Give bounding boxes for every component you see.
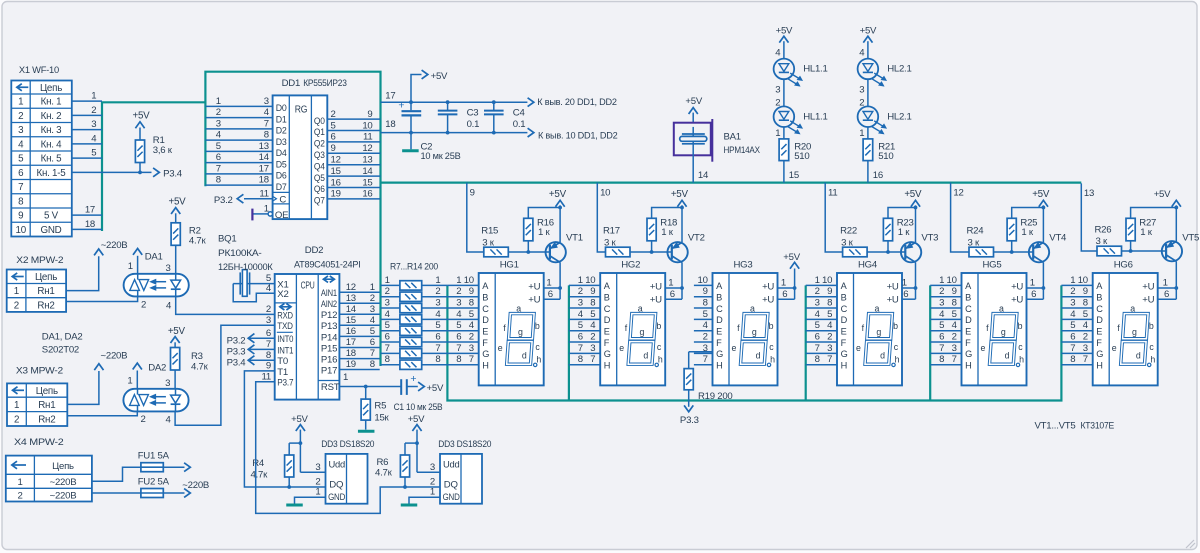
svg-text:FU2 5A: FU2 5A — [138, 477, 170, 488]
svg-text:D3: D3 — [276, 137, 287, 148]
svg-text:3: 3 — [166, 263, 171, 274]
svg-text:15: 15 — [346, 315, 356, 326]
svg-text:F: F — [841, 338, 847, 348]
svg-text:8: 8 — [456, 354, 461, 365]
svg-text:10: 10 — [698, 275, 708, 286]
svg-text:G: G — [1096, 349, 1103, 359]
svg-text:VT2: VT2 — [688, 232, 705, 243]
svg-text:+U: +U — [1142, 282, 1154, 293]
svg-text:7: 7 — [939, 343, 944, 354]
svg-text:Rн1: Rн1 — [38, 400, 55, 411]
svg-text:b: b — [656, 321, 661, 331]
svg-text:C3: C3 — [467, 108, 479, 119]
svg-text:2: 2 — [815, 286, 820, 297]
svg-text:a: a — [875, 304, 880, 314]
svg-text:E: E — [841, 326, 847, 336]
svg-text:3: 3 — [578, 297, 583, 308]
svg-text:+: + — [398, 100, 404, 112]
svg-text:7: 7 — [18, 182, 23, 193]
svg-text:2: 2 — [456, 286, 461, 297]
svg-text:~220В: ~220В — [101, 351, 128, 362]
svg-text:5: 5 — [827, 309, 832, 320]
svg-text:HPM14AX: HPM14AX — [724, 145, 761, 156]
svg-text:P3.2: P3.2 — [227, 336, 246, 347]
svg-text:OE: OE — [275, 210, 288, 221]
svg-text:E: E — [604, 326, 610, 336]
svg-text:d: d — [880, 351, 885, 361]
svg-text:a: a — [638, 304, 643, 314]
svg-text:7: 7 — [456, 343, 461, 354]
svg-text:9: 9 — [367, 109, 372, 120]
svg-text:+5V: +5V — [169, 197, 187, 208]
svg-text:2: 2 — [91, 105, 96, 116]
svg-text:C: C — [716, 304, 723, 314]
svg-text:F: F — [1096, 338, 1102, 348]
svg-text:1: 1 — [127, 376, 132, 387]
svg-text:+5V: +5V — [860, 25, 877, 36]
svg-text:3: 3 — [815, 297, 820, 308]
svg-text:g: g — [876, 327, 881, 337]
svg-text:7: 7 — [1083, 354, 1088, 365]
svg-text:+U: +U — [650, 295, 662, 306]
svg-text:P3.3: P3.3 — [227, 347, 246, 358]
svg-text:3: 3 — [469, 343, 474, 354]
svg-text:P3.4: P3.4 — [227, 358, 247, 369]
svg-text:H: H — [965, 360, 971, 370]
svg-text:3: 3 — [590, 343, 595, 354]
svg-text:+5V: +5V — [133, 110, 151, 121]
svg-text:10: 10 — [16, 225, 27, 236]
svg-text:14: 14 — [362, 166, 373, 177]
svg-text:11: 11 — [262, 371, 271, 382]
svg-text:C4: C4 — [513, 108, 526, 119]
svg-text:g: g — [518, 327, 523, 337]
svg-text:Кн. 1-5: Кн. 1-5 — [37, 168, 67, 179]
svg-text:13: 13 — [346, 293, 356, 304]
svg-text:7: 7 — [264, 118, 269, 129]
svg-text:2: 2 — [435, 286, 440, 297]
svg-text:5: 5 — [815, 320, 820, 331]
svg-text:5: 5 — [1070, 320, 1075, 331]
svg-text:2: 2 — [14, 414, 19, 425]
svg-text:BQ1: BQ1 — [218, 234, 236, 245]
svg-text:BA1: BA1 — [724, 132, 741, 143]
svg-text:P3.7: P3.7 — [277, 378, 293, 389]
svg-text:Q6: Q6 — [314, 184, 325, 195]
svg-text:R19 200: R19 200 — [698, 391, 733, 402]
svg-text:G: G — [482, 349, 489, 359]
svg-text:1: 1 — [1163, 278, 1168, 289]
svg-text:HG4: HG4 — [858, 259, 878, 270]
svg-text:5: 5 — [91, 148, 96, 159]
svg-text:+5V: +5V — [1154, 189, 1171, 200]
svg-text:7: 7 — [216, 163, 221, 174]
svg-text:P13: P13 — [321, 321, 337, 332]
svg-text:HL1.1: HL1.1 — [803, 64, 827, 75]
svg-text:B: B — [965, 292, 971, 302]
svg-text:1: 1 — [859, 128, 864, 139]
svg-text:HG2: HG2 — [621, 259, 640, 270]
svg-text:HG5: HG5 — [983, 259, 1002, 270]
svg-text:9: 9 — [703, 286, 708, 297]
svg-text:a: a — [516, 304, 521, 314]
svg-text:c: c — [657, 342, 662, 352]
svg-text:7: 7 — [703, 354, 708, 365]
svg-text:+: + — [410, 373, 416, 385]
svg-text:+U: +U — [528, 295, 540, 306]
svg-text:+5V: +5V — [776, 25, 793, 36]
svg-text:RST: RST — [321, 382, 340, 393]
svg-text:1: 1 — [14, 400, 19, 411]
svg-text:R1: R1 — [153, 135, 165, 146]
svg-text:1: 1 — [781, 278, 786, 289]
svg-text:C: C — [482, 304, 489, 314]
svg-text:c: c — [1018, 342, 1023, 352]
svg-text:P3.4: P3.4 — [163, 168, 183, 179]
svg-text:H: H — [1096, 360, 1102, 370]
svg-text:3: 3 — [216, 118, 221, 129]
svg-text:Кн. 4: Кн. 4 — [41, 139, 63, 150]
svg-text:R24: R24 — [967, 225, 985, 236]
svg-text:3: 3 — [1083, 343, 1088, 354]
svg-text:D5: D5 — [276, 159, 287, 170]
svg-text:2: 2 — [266, 304, 271, 315]
svg-text:3: 3 — [827, 343, 832, 354]
svg-text:1: 1 — [91, 91, 96, 102]
svg-text:4: 4 — [264, 107, 270, 118]
svg-text:Кн. 2: Кн. 2 — [41, 111, 62, 122]
svg-text:DQ: DQ — [329, 480, 343, 491]
svg-text:1: 1 — [435, 275, 440, 286]
svg-text:g: g — [640, 327, 645, 337]
svg-text:5: 5 — [939, 320, 944, 331]
svg-text:Q3: Q3 — [314, 150, 325, 161]
svg-text:D4: D4 — [276, 148, 288, 159]
svg-text:5 V: 5 V — [44, 211, 59, 222]
svg-text:15: 15 — [362, 177, 372, 188]
svg-text:5: 5 — [18, 154, 24, 165]
svg-text:16: 16 — [362, 189, 372, 200]
svg-text:15: 15 — [789, 170, 799, 181]
svg-text:T1: T1 — [277, 367, 288, 378]
svg-text:8: 8 — [216, 175, 221, 186]
svg-text:FU1 5A: FU1 5A — [138, 450, 170, 461]
svg-text:b: b — [535, 321, 540, 331]
svg-text:Q7: Q7 — [314, 196, 325, 207]
svg-text:Кн. 1: Кн. 1 — [41, 97, 62, 108]
svg-text:B: B — [604, 292, 610, 302]
svg-text:INT0: INT0 — [277, 334, 293, 345]
svg-text:AIN2: AIN2 — [321, 299, 337, 310]
svg-text:7: 7 — [435, 343, 440, 354]
svg-text:6: 6 — [1070, 331, 1075, 342]
svg-text:Rн2: Rн2 — [38, 414, 55, 425]
svg-text:H: H — [841, 360, 847, 370]
svg-text:Кн. 5: Кн. 5 — [41, 154, 63, 165]
svg-text:10: 10 — [464, 275, 474, 286]
svg-text:VT3: VT3 — [921, 232, 938, 243]
svg-text:G: G — [604, 349, 611, 359]
svg-text:+5V: +5V — [408, 414, 425, 425]
svg-text:X3 MPW-2: X3 MPW-2 — [16, 365, 63, 376]
svg-text:Q5: Q5 — [314, 173, 325, 184]
svg-text:R15: R15 — [481, 225, 498, 236]
svg-text:P16: P16 — [321, 355, 337, 366]
svg-text:7: 7 — [370, 348, 375, 359]
svg-text:12: 12 — [953, 188, 963, 199]
svg-text:G: G — [965, 349, 972, 359]
svg-text:6: 6 — [670, 289, 675, 300]
svg-text:Кн. 3: Кн. 3 — [41, 125, 63, 136]
svg-text:8: 8 — [469, 297, 474, 308]
svg-text:+5V: +5V — [431, 71, 448, 82]
svg-text:Q1: Q1 — [314, 127, 325, 138]
svg-text:13: 13 — [1084, 188, 1094, 199]
svg-text:Цепь: Цепь — [35, 272, 57, 283]
svg-text:3: 3 — [385, 297, 390, 308]
svg-text:7: 7 — [385, 343, 390, 354]
svg-text:7: 7 — [815, 343, 820, 354]
svg-text:X1 WF-10: X1 WF-10 — [19, 65, 59, 76]
svg-text:~220В: ~220В — [50, 491, 77, 502]
svg-text:F: F — [716, 338, 722, 348]
svg-text:5: 5 — [952, 309, 957, 320]
svg-text:~220В: ~220В — [50, 477, 77, 488]
svg-text:b: b — [769, 321, 774, 331]
svg-text:e: e — [856, 343, 861, 353]
svg-text:F: F — [604, 338, 610, 348]
svg-text:S202T02: S202T02 — [42, 344, 79, 355]
svg-text:2: 2 — [1070, 286, 1075, 297]
svg-text:8: 8 — [435, 354, 440, 365]
svg-text:2: 2 — [469, 331, 474, 342]
svg-text:F: F — [965, 338, 971, 348]
svg-text:19: 19 — [331, 189, 341, 200]
svg-text:B: B — [482, 292, 488, 302]
svg-text:5: 5 — [456, 320, 461, 331]
svg-text:13: 13 — [259, 141, 269, 152]
svg-text:R3: R3 — [191, 351, 203, 362]
svg-text:+U: +U — [1011, 282, 1023, 293]
svg-text:510: 510 — [878, 151, 893, 162]
svg-text:R22: R22 — [840, 225, 857, 236]
svg-text:3: 3 — [266, 315, 271, 326]
svg-text:3: 3 — [165, 378, 170, 389]
svg-text:Udd: Udd — [443, 459, 460, 470]
svg-text:9: 9 — [470, 188, 475, 199]
svg-text:3: 3 — [775, 84, 780, 95]
svg-text:e: e — [1112, 343, 1117, 353]
svg-text:3: 3 — [91, 119, 96, 130]
svg-text:1: 1 — [315, 487, 320, 498]
svg-text:14: 14 — [259, 152, 270, 163]
svg-text:8: 8 — [264, 130, 269, 141]
svg-text:DA2: DA2 — [148, 363, 166, 374]
svg-text:C: C — [841, 304, 848, 314]
svg-text:18: 18 — [85, 219, 95, 230]
svg-text:D0: D0 — [276, 103, 287, 114]
svg-text:17: 17 — [385, 91, 395, 102]
svg-text:5: 5 — [590, 309, 595, 320]
svg-text:4.7к: 4.7к — [375, 468, 393, 479]
svg-text:2: 2 — [18, 111, 23, 122]
svg-text:P14: P14 — [321, 332, 338, 343]
svg-text:RG: RG — [295, 105, 308, 116]
svg-text:E: E — [482, 326, 488, 336]
svg-text:2: 2 — [827, 331, 832, 342]
svg-text:8: 8 — [370, 359, 375, 370]
svg-text:1 к: 1 к — [1021, 227, 1034, 238]
svg-text:18: 18 — [259, 175, 269, 186]
svg-text:R6: R6 — [377, 457, 389, 468]
svg-text:3: 3 — [18, 125, 24, 136]
svg-text:1: 1 — [1030, 278, 1035, 289]
svg-text:Q0: Q0 — [314, 116, 325, 127]
svg-text:6: 6 — [435, 331, 440, 342]
svg-text:Цепь: Цепь — [40, 83, 62, 94]
svg-text:7: 7 — [266, 339, 271, 350]
svg-text:T0: T0 — [277, 356, 288, 367]
svg-text:16: 16 — [346, 326, 356, 337]
svg-text:4: 4 — [775, 48, 781, 59]
svg-text:C: C — [279, 195, 286, 206]
svg-text:G: G — [716, 349, 723, 359]
svg-text:12БН-10000К: 12БН-10000К — [218, 262, 273, 273]
svg-text:3,6 к: 3,6 к — [153, 145, 173, 156]
svg-text:X4 MPW-2: X4 MPW-2 — [14, 437, 64, 448]
svg-text:b: b — [1149, 321, 1154, 331]
svg-text:3: 3 — [859, 84, 864, 95]
svg-text:GND: GND — [40, 225, 61, 236]
svg-text:a: a — [750, 304, 755, 314]
svg-text:c: c — [894, 342, 899, 352]
svg-text:2: 2 — [703, 331, 708, 342]
svg-text:7: 7 — [578, 343, 583, 354]
svg-text:10 мк 25В: 10 мк 25В — [421, 151, 461, 162]
svg-text:DD3 DS18S20: DD3 DS18S20 — [321, 439, 374, 450]
svg-text:R26: R26 — [1095, 224, 1112, 235]
svg-text:6: 6 — [815, 331, 820, 342]
svg-text:5: 5 — [370, 326, 375, 337]
svg-text:+U: +U — [528, 282, 540, 293]
svg-text:4.7к: 4.7к — [191, 361, 209, 372]
svg-text:HL1.1: HL1.1 — [803, 111, 827, 122]
svg-text:3: 3 — [939, 297, 944, 308]
svg-text:11: 11 — [363, 132, 372, 143]
svg-text:8: 8 — [1083, 297, 1088, 308]
svg-text:4: 4 — [91, 133, 97, 144]
svg-text:9: 9 — [827, 286, 832, 297]
svg-text:~220В: ~220В — [182, 480, 209, 491]
svg-text:C: C — [965, 304, 972, 314]
svg-text:h: h — [536, 355, 541, 365]
svg-text:HL2.1: HL2.1 — [887, 64, 911, 75]
svg-text:9: 9 — [590, 286, 595, 297]
svg-text:d: d — [1136, 351, 1141, 361]
svg-text:e: e — [619, 343, 624, 353]
svg-text:P3.3: P3.3 — [680, 415, 699, 426]
svg-text:1: 1 — [578, 275, 583, 286]
svg-text:К выв. 10 DD1, DD2: К выв. 10 DD1, DD2 — [538, 131, 618, 142]
svg-text:2: 2 — [952, 331, 957, 342]
svg-text:R5: R5 — [374, 400, 386, 411]
svg-text:AIN1: AIN1 — [321, 288, 337, 299]
svg-text:5: 5 — [469, 309, 474, 320]
svg-text:2: 2 — [590, 331, 595, 342]
svg-text:8: 8 — [385, 354, 390, 365]
svg-text:10: 10 — [822, 275, 832, 286]
svg-text:1 к: 1 к — [538, 227, 551, 238]
svg-text:+U: +U — [887, 282, 899, 293]
svg-text:1: 1 — [18, 97, 23, 108]
svg-text:E: E — [716, 326, 722, 336]
svg-text:E: E — [1096, 326, 1102, 336]
svg-text:a: a — [1130, 304, 1135, 314]
svg-text:5: 5 — [578, 320, 583, 331]
svg-text:9: 9 — [331, 143, 336, 154]
svg-text:4: 4 — [859, 48, 865, 59]
svg-text:D: D — [1096, 315, 1103, 325]
svg-text:+5V: +5V — [291, 414, 308, 425]
svg-text:e: e — [498, 343, 503, 353]
svg-text:+U: +U — [650, 282, 662, 293]
svg-text:2: 2 — [1083, 331, 1088, 342]
svg-text:3: 3 — [952, 343, 957, 354]
svg-text:P3.2: P3.2 — [214, 195, 233, 206]
svg-text:6: 6 — [548, 289, 553, 300]
svg-text:E: E — [965, 326, 971, 336]
svg-text:3: 3 — [315, 462, 320, 473]
svg-text:2: 2 — [385, 286, 390, 297]
svg-text:7: 7 — [952, 354, 957, 365]
svg-text:14: 14 — [346, 304, 357, 315]
svg-text:g: g — [1001, 327, 1006, 337]
svg-text:1: 1 — [815, 275, 820, 286]
svg-text:5: 5 — [216, 141, 221, 152]
svg-text:1 к: 1 к — [1140, 227, 1153, 238]
svg-text:16: 16 — [331, 177, 341, 188]
svg-text:2: 2 — [331, 109, 336, 120]
svg-text:10: 10 — [947, 275, 957, 286]
svg-text:GND: GND — [328, 492, 345, 503]
svg-text:2: 2 — [370, 293, 375, 304]
svg-text:VT1: VT1 — [566, 232, 583, 243]
svg-text:VT1...VT5: VT1...VT5 — [1035, 421, 1076, 432]
svg-text:510: 510 — [794, 151, 809, 162]
svg-text:5: 5 — [435, 320, 440, 331]
svg-text:6: 6 — [370, 337, 375, 348]
svg-text:D6: D6 — [276, 171, 287, 182]
svg-text:+U: +U — [887, 295, 899, 306]
svg-text:R17: R17 — [603, 225, 620, 236]
svg-text:3: 3 — [456, 297, 461, 308]
svg-text:9: 9 — [1083, 286, 1088, 297]
svg-text:HL2.1: HL2.1 — [887, 111, 911, 122]
svg-text:10: 10 — [1078, 275, 1088, 286]
svg-text:0.1: 0.1 — [513, 119, 526, 130]
svg-text:3 к: 3 к — [482, 237, 495, 248]
svg-text:9: 9 — [266, 361, 271, 372]
svg-text:a: a — [999, 304, 1004, 314]
svg-text:HG1: HG1 — [500, 259, 519, 270]
svg-text:DD2: DD2 — [305, 245, 323, 256]
svg-text:К выв. 20 DD1, DD2: К выв. 20 DD1, DD2 — [537, 97, 617, 108]
svg-text:3: 3 — [370, 304, 375, 315]
svg-text:e: e — [981, 343, 986, 353]
svg-text:3: 3 — [435, 297, 440, 308]
svg-text:h: h — [895, 355, 900, 365]
svg-text:8: 8 — [939, 354, 944, 365]
